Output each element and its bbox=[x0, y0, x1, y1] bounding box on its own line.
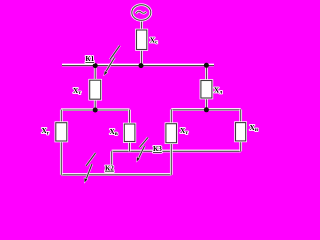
resistor Xg2 bottom left bbox=[124, 124, 135, 142]
right sub-bus bbox=[171, 108, 240, 111]
junction node bus-left bbox=[93, 63, 98, 68]
label K1 bbox=[85, 55, 94, 63]
resistor XH bottom far right bbox=[236, 123, 246, 141]
junction node left sub-bus bbox=[93, 108, 98, 113]
label K2 bbox=[105, 164, 114, 172]
fault bolt K2 bbox=[84, 153, 95, 183]
wire XT to left sub-bus bbox=[94, 99, 97, 111]
resistor Xc bbox=[137, 30, 147, 50]
wire sub-bus to XH bbox=[239, 110, 242, 124]
svg-text:К2: К2 bbox=[105, 164, 114, 172]
line B bottom bus bbox=[61, 173, 171, 176]
wire Xg2 to line A bbox=[128, 141, 131, 152]
ac source G1 bbox=[132, 5, 151, 21]
wire XT2 to line B crossing line A bbox=[170, 142, 173, 175]
wire bus to XL right bbox=[205, 66, 208, 82]
fault bolt K1 bbox=[104, 46, 120, 76]
resistor XT left upper bbox=[90, 80, 101, 99]
stub line A to K2 point bbox=[110, 151, 113, 164]
svg-text:К3: К3 bbox=[153, 145, 162, 153]
svg-text:К1: К1 bbox=[85, 55, 94, 63]
resistor Xg1 bottom far left bbox=[56, 123, 67, 141]
wire sub-bus to Xg1 bbox=[60, 110, 63, 124]
resistor XL right upper bbox=[201, 81, 212, 99]
wire sub-bus to XT2 bbox=[170, 110, 173, 125]
bus main horizontal bbox=[62, 64, 214, 67]
wire Xg1 to line B bbox=[60, 140, 63, 175]
wire sub-bus to Xg2 bbox=[128, 110, 131, 125]
resistor XT2 bottom right inner bbox=[166, 124, 177, 143]
wire source to Xc bbox=[140, 20, 143, 31]
label K3 bbox=[153, 145, 162, 153]
wire Xc to bus bbox=[140, 49, 143, 66]
fault bolt K3 bbox=[137, 138, 148, 162]
wire bus to XT left bbox=[94, 66, 97, 81]
junction node bus-center bbox=[139, 63, 144, 68]
junction node right sub-bus bbox=[204, 107, 209, 112]
junction node bus-right bbox=[204, 63, 209, 68]
line A lower bus bbox=[112, 150, 241, 153]
wire XL to right sub-bus bbox=[205, 97, 208, 110]
wire XH to line A bbox=[239, 140, 242, 151]
left sub-bus bbox=[61, 108, 130, 111]
